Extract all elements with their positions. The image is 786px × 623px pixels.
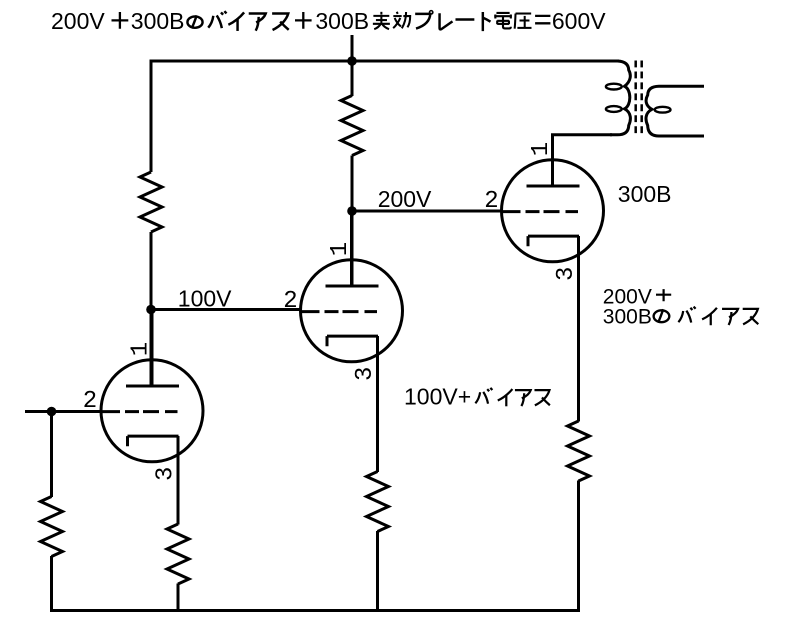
node junction dot top rail / center column (347, 56, 357, 66)
node 200V junction dot (347, 206, 357, 216)
tube V1 (first stage triode) (101, 358, 203, 462)
wire V2 cathode drop upper (376, 336, 379, 472)
title kana to (483, 12, 491, 31)
node grid input junction dot (47, 407, 57, 417)
title kanji jitsu (373, 12, 390, 29)
title kana a (249, 14, 266, 31)
resistor V3 (300B) cathode bias (568, 421, 590, 481)
resistor left plate load (140, 172, 162, 232)
title fullwidth equals (535, 16, 550, 23)
wire V1 cathode drop upper (177, 436, 180, 525)
svg-text:3: 3 (553, 267, 580, 281)
transformer primary loop ellipse lower (606, 106, 622, 112)
svg-text:300B: 300B (315, 8, 369, 34)
svg-text:1: 1 (128, 342, 155, 356)
title kana long-vowel bar (455, 18, 474, 21)
wire V2 plate lead (350, 211, 353, 287)
wire left column upper segment (150, 60, 153, 173)
tube V3 300B output triode (502, 158, 604, 262)
transformer T1 primary winding (610, 61, 630, 135)
title kanji den (494, 13, 511, 28)
svg-text:2: 2 (283, 288, 297, 315)
resistor center plate load (341, 96, 363, 156)
wire V3 cathode drop upper (577, 236, 580, 422)
svg-text:2: 2 (83, 388, 97, 415)
wire center column upper segment (351, 61, 354, 96)
title kanji kou (393, 12, 410, 28)
transformer core dashed line left (634, 61, 637, 138)
transformer core dashed line right (640, 61, 643, 138)
resistor V2 cathode bias (367, 472, 389, 532)
svg-text:200V: 200V (378, 186, 432, 212)
wire V3 cathode drop lower (joins bus at right corner) (577, 481, 580, 483)
wire center column lower segment to V2 plate (351, 156, 354, 288)
wire V3 plate lead up and across to output transformer (553, 135, 613, 187)
transformer secondary loop ellipse (655, 107, 671, 113)
title kana ba (208, 11, 226, 28)
title kana re (440, 13, 453, 29)
wire grid leak drop upper (50, 412, 53, 498)
wire V1 cathode drop lower (177, 584, 180, 612)
svg-text:1: 1 (327, 242, 354, 256)
title fullwidth plus 1 (112, 12, 129, 29)
title fullwidth plus 2 (295, 12, 312, 29)
wire V2 cathode drop lower (376, 531, 379, 612)
svg-text:2: 2 (484, 188, 498, 215)
resistor grid leak (41, 497, 63, 557)
wire 100V node horizontal to V2 grid (151, 308, 301, 311)
transformer T1 secondary winding (646, 86, 704, 136)
svg-text:100V+: 100V+ (404, 384, 471, 410)
wire bottom left corner and ground bus (52, 481, 579, 611)
svg-text:100V: 100V (178, 286, 232, 312)
svg-text:300B: 300B (603, 305, 652, 328)
wire left column lower segment to V1 plate (150, 232, 153, 387)
title kana su (272, 14, 289, 30)
title kana i (228, 12, 244, 31)
svg-text:300B: 300B (618, 181, 672, 207)
svg-text:3: 3 (153, 467, 180, 481)
tube V2 (second stage triode) (301, 258, 403, 362)
wire V1 grid input stub (25, 410, 102, 413)
title kana no (187, 15, 202, 28)
wire V1 plate lead (151, 310, 154, 388)
transformer primary loop ellipse upper (606, 84, 622, 90)
svg-text:600V: 600V (552, 8, 606, 34)
wire 200V node horizontal to V3 grid (352, 210, 502, 213)
title kanji atsu (515, 14, 532, 29)
wire top rail (151, 60, 619, 63)
title kana pu (415, 11, 433, 29)
resistor V1 cathode bias (167, 524, 189, 584)
svg-text:1: 1 (528, 142, 555, 156)
wire B+ stub from title to top rail (351, 35, 354, 61)
svg-text:3: 3 (352, 367, 379, 381)
svg-text:200V: 200V (51, 8, 105, 34)
svg-text:300B: 300B (131, 8, 185, 34)
node 100V junction dot (146, 305, 156, 315)
